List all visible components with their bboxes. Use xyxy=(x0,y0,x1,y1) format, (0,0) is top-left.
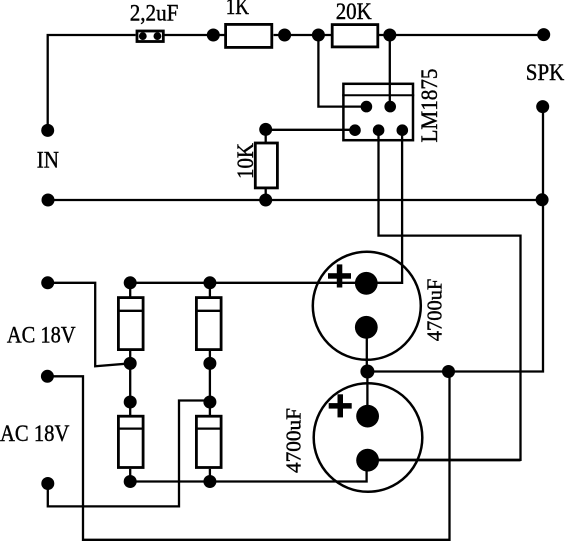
node D1 bottom junction xyxy=(124,357,137,370)
node 20K left junction xyxy=(312,29,325,42)
node AC terminal 2 xyxy=(41,477,54,490)
wire LM1875 V- pin down right down to C3 negative xyxy=(368,130,521,460)
wire D2 top stub xyxy=(209,283,211,298)
node D3 bottom junction xyxy=(124,475,137,488)
svg-text:1K: 1K xyxy=(226,0,250,19)
resistor 20K xyxy=(332,25,378,47)
wire 10K top node to op-amp pin xyxy=(266,129,355,131)
node D4 bottom junction xyxy=(203,475,216,488)
svg-text:AC 18V: AC 18V xyxy=(0,421,70,446)
svg-text:IN: IN xyxy=(37,148,60,173)
node ground bus left end xyxy=(42,194,55,207)
svg-text:2,2uF: 2,2uF xyxy=(130,0,179,25)
wire C2 negative down to center-tap junction xyxy=(366,327,368,371)
pin (V+) xyxy=(397,124,409,136)
capacitor 2,2uF xyxy=(137,31,163,42)
diode D2 (bridge top-right) xyxy=(195,298,223,350)
wire 20K-right node down to op-amp output pin xyxy=(389,35,391,107)
wire bridge negative bus to C3 negative xyxy=(130,460,366,481)
wire 20K-left node down to op-amp inverting input pin xyxy=(318,35,366,107)
pin (non-inverting input) xyxy=(349,124,361,136)
pin (V-) xyxy=(373,124,385,136)
pin (output) xyxy=(384,101,396,113)
wire 10K top node to resistor body xyxy=(265,130,267,143)
node D4 top junction xyxy=(203,396,216,409)
wire R-20K to SPK+ node xyxy=(379,34,544,36)
node SPK+ terminal xyxy=(537,28,550,41)
svg-text:4700uF: 4700uF xyxy=(281,408,305,473)
op-amp LM1875 xyxy=(342,84,414,140)
wire D1 bottom to D3 top xyxy=(129,351,131,416)
wire AC center tap down along bottom to ground node xyxy=(47,372,449,540)
wire D2 bottom to D4 top xyxy=(209,351,211,416)
wire D1 top stub xyxy=(129,283,131,298)
node AC center tap terminal xyxy=(41,370,54,383)
wire IN up and right to C1 xyxy=(48,35,136,130)
node IN terminal xyxy=(41,124,54,137)
node 10K bottom junction on ground bus xyxy=(259,194,272,207)
wire C1 to R-1K xyxy=(165,34,225,36)
node ground return junction xyxy=(442,365,455,378)
svg-text:10K: 10K xyxy=(233,143,258,179)
node D1 top junction xyxy=(124,276,137,289)
wire R-1K to R-20K xyxy=(274,34,332,36)
wire 10K body to ground bus xyxy=(265,189,267,200)
diode D3 (bridge bottom-left) xyxy=(117,416,145,467)
capacitor C3 4700uF (lower) xyxy=(314,383,423,492)
node ground bus right junction xyxy=(536,193,549,206)
node 10K top junction xyxy=(259,123,272,136)
node AC terminal 1 xyxy=(41,276,54,289)
wire C3 negative right to V- feed xyxy=(368,459,521,461)
wire AC terminal 2 to D2/D4 junction xyxy=(48,401,210,507)
svg-text:SPK: SPK xyxy=(526,60,565,85)
diode D1 (bridge top-left) xyxy=(117,298,145,350)
svg-text:4700uF: 4700uF xyxy=(422,279,446,342)
resistor 10K xyxy=(255,143,277,188)
wire D3 bottom stub xyxy=(129,469,131,482)
node D2 top junction xyxy=(203,276,216,289)
node C1 to 1K junction xyxy=(207,29,220,42)
node 1K to 20K junction xyxy=(278,29,291,42)
wire center-tap junction to C3 positive xyxy=(366,372,368,417)
svg-text:20K: 20K xyxy=(336,0,372,24)
wire ground bus xyxy=(48,199,542,201)
capacitor C2 4700uF (upper) xyxy=(313,252,421,360)
wire AC terminal 1 to D1/D3 junction xyxy=(48,283,131,367)
wire center-tap junction right and up to SPK- xyxy=(367,107,543,372)
resistor 1K xyxy=(226,24,272,47)
node D2 bottom junction xyxy=(203,357,216,370)
svg-text:AC 18V: AC 18V xyxy=(7,322,76,347)
node 20K right junction xyxy=(383,29,396,42)
diode D4 (bridge bottom-right) xyxy=(195,416,223,467)
node D3 top junction xyxy=(124,396,137,409)
wire bridge positive bus to C2 positive xyxy=(130,282,366,284)
wire LM1875 V+ pin down to C2 positive xyxy=(366,130,402,283)
node center-tap junction xyxy=(360,365,374,379)
wire D4 bottom stub xyxy=(209,469,211,482)
node SPK- terminal xyxy=(536,100,549,113)
svg-text:LM1875: LM1875 xyxy=(417,69,442,143)
pin (inverting input) xyxy=(361,101,373,113)
